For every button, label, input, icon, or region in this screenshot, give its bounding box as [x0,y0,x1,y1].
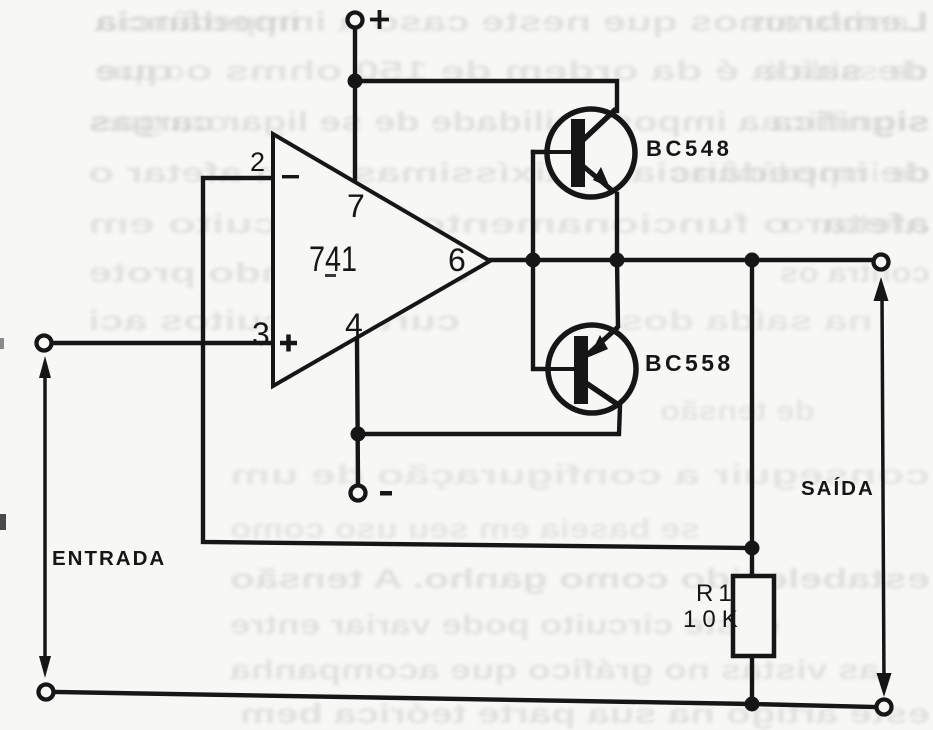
svg-text:741: 741 [309,240,357,279]
wire R1 top [750,260,754,576]
terminal: output SAIDA [874,255,889,270]
svg-text:cargas: cargas [90,106,230,137]
wire input to pin 3 [53,341,273,345]
label + supply [370,10,389,29]
terminal: input ENTRADA [37,336,52,351]
wire BC558 base: down from node, right to base [533,260,575,369]
svg-text:de saída é: de saída é [763,55,928,86]
wire BC548 base lead [533,150,573,154]
SAIDA measurement arrow [874,277,892,697]
svg-text:BC548: BC548 [646,136,732,161]
label - supply [380,491,392,496]
wire BC548 base down to node 6 line [531,152,535,260]
transistor Q2 BC558 [533,325,636,413]
junction dot at +V rail / pin 7 [348,74,363,89]
wire BC558 emitter up to node 6 line [617,260,618,326]
wire BC548 emitter down to node 6 line [615,194,619,260]
svg-text:BC558: BC558 [645,350,734,376]
svg-text:10K: 10K [683,606,744,633]
terminal: bottom right [877,700,892,715]
svg-text:o que: o que [95,55,185,86]
junction dot pin4 / collector line [351,427,366,442]
terminal: -V supply [351,486,366,501]
junction dot node6 / R1 branch [745,253,760,268]
svg-text:estabelecido como ganho. A ten: estabelecido como ganho. A tensão [230,563,930,594]
svg-text:R1: R1 [696,580,737,607]
terminal: +V supply [348,13,363,28]
svg-text:significa: significa [759,106,930,137]
svg-text:3: 3 [252,316,270,352]
resistor R1 [733,576,774,656]
svg-text:4: 4 [345,307,363,343]
svg-text:6: 6 [448,242,466,278]
edge scan mark [0,514,6,530]
junction dot feedback / R1 top [745,541,760,556]
terminal: bottom left [39,685,54,700]
junction dot node6 / emitters [610,253,625,268]
wire pin 4 down to -V terminal [357,341,358,484]
svg-text:as vistas no gráfico que acomp: as vistas no gráfico que acompanha [229,654,880,685]
svg-text:Lembramos: Lembramos [748,6,928,37]
svg-text:2: 2 [250,147,265,177]
svg-text:impedância: impedância [94,6,300,37]
svg-text:de impedâncias: de impedâncias [670,157,930,188]
svg-text:ENTRADA: ENTRADA [52,547,166,570]
wire +V terminal down to pin 7 [353,29,357,183]
svg-text:7: 7 [347,188,365,224]
svg-text:afetar o: afetar o [780,208,930,239]
op-amp U1 741 [273,134,490,386]
wire R1 bottom [750,656,754,703]
junction dot node6 / bases [526,253,541,268]
svg-text:na saída dos: na saída dos [620,305,873,336]
wire pin 2 feedback: left, down, right to R1 top node [203,178,752,548]
svg-text:SAÍDA: SAÍDA [801,477,875,500]
svg-text:se baseia em seu uso como: se baseia em seu uso como [230,513,700,544]
ENTRADA measurement arrow [39,356,51,678]
wire output line node 6 to output terminal [490,258,873,262]
wire top rail to BC548 collector [355,81,617,111]
svg-text:de tensão: de tensão [660,395,815,426]
transistor Q1 BC548 [533,109,635,197]
wire bottom rail [55,692,875,707]
junction dot R1 bottom / bottom rail [745,697,760,712]
wire BC558 collector down and left to pin 4 line [358,406,620,434]
